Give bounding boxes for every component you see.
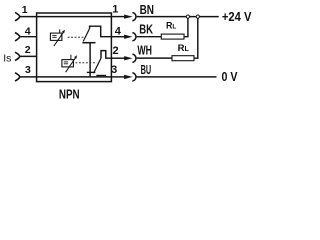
svg-text:2: 2 (112, 45, 118, 57)
svg-text:3: 3 (25, 64, 31, 76)
svg-text:NPN: NPN (59, 87, 80, 102)
dashed actuation line B2 to T2 (75, 62, 96, 64)
wire +24V rail inside box (pin1 to BN) (37, 16, 112, 18)
wire box to plug BK (111, 36, 124, 38)
svg-text:BU: BU (141, 62, 152, 77)
plug contact row 2 (124, 54, 136, 62)
wire pin2 to box (20, 55, 37, 57)
load resistor RL1 (161, 34, 184, 39)
wire BN to +24V (137, 16, 219, 18)
transistor switch T1 (82, 26, 111, 77)
wire box to plug WH (111, 57, 124, 59)
connector socket pin 3 (left) (15, 73, 20, 81)
wire RL2 to +24V rail drop (194, 18, 198, 58)
svg-text:1: 1 (22, 4, 28, 16)
svg-text:4: 4 (25, 26, 31, 38)
dashed actuation line B1 to T1 (68, 36, 85, 38)
load resistor RL2 (172, 56, 194, 61)
sensor enclosure box (37, 13, 112, 82)
junction node RL1/+24V (186, 15, 189, 18)
emitter junction bar T1 (87, 71, 96, 73)
svg-text:BK: BK (139, 21, 153, 36)
wire pin4 to box (20, 36, 37, 38)
proximity sensor element B2 (62, 55, 77, 72)
proximity sensor element B1 (50, 29, 65, 46)
svg-text:3: 3 (111, 64, 117, 76)
plug contact row 1 (triangle + socket arc) (124, 13, 136, 21)
svg-text:Is: Is (3, 53, 11, 65)
wire WH to load resistor RL2 (137, 57, 172, 59)
plug contact row 3 (124, 73, 136, 81)
plug contact row 4 (124, 33, 136, 41)
svg-text:4: 4 (115, 25, 122, 37)
svg-text:2: 2 (25, 44, 31, 56)
wire RL1 to +24V rail drop (184, 18, 188, 36)
svg-text:0 V: 0 V (222, 69, 238, 84)
connector socket pin 2 (left) (15, 52, 20, 60)
wire pin3 to box (20, 76, 37, 78)
svg-text:+24 V: +24 V (222, 9, 252, 24)
svg-text:WH: WH (137, 43, 152, 58)
wire pin1 to box (20, 16, 37, 18)
wire 0V rail inside box (pin3 to BU) (37, 76, 112, 78)
wire box to plug BN (111, 16, 124, 18)
svg-text:BN: BN (140, 2, 154, 17)
junction node RL2/+24V (196, 15, 199, 18)
svg-text:1: 1 (112, 4, 118, 16)
wire BK to load resistor RL1 (137, 36, 162, 38)
connector socket pin 4 (left) (15, 33, 20, 41)
transistor switch T2 (94, 51, 112, 76)
wire BU to 0V (137, 76, 217, 78)
connector socket pin 1 (left) (15, 12, 20, 20)
svg-text:RL: RL (166, 21, 176, 31)
svg-text:RL: RL (178, 43, 190, 54)
wire box to plug BU (111, 76, 124, 78)
